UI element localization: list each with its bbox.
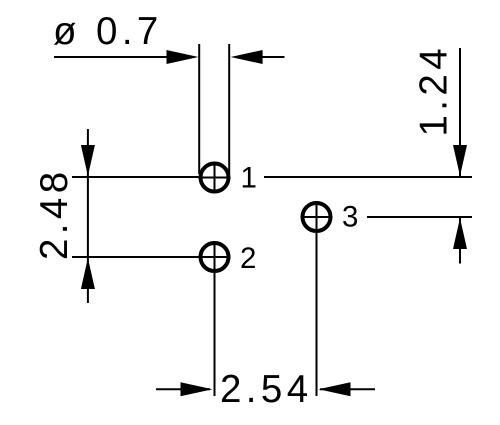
- wire: row2 extension line left (from 2.48 dim to pad 2): [72, 256, 199, 258]
- dimension line 0.7 left segment: [54, 56, 170, 58]
- dimension line 2.54 left tail: [156, 388, 210, 390]
- wire: pad3 extension line down to 2.54 dim: [316, 233, 318, 396]
- svg-text:ø 0.7: ø 0.7: [53, 10, 163, 53]
- wire: row1 extension line left (from 2.48 dim to pad 1): [72, 176, 199, 178]
- arrowhead 0.7 pointing left: [231, 50, 263, 64]
- wire: pad2 extension line down to 2.54 dim: [214, 273, 216, 396]
- wire: pad1 diameter extension line left: [198, 44, 200, 174]
- arrowhead 1.24 pointing up: [453, 218, 467, 249]
- svg-text:2.48: 2.48: [33, 167, 76, 260]
- dimension line 1.24 lower vertical tail: [459, 218, 461, 264]
- svg-text:2.54: 2.54: [220, 368, 313, 411]
- arrowhead 2.54 pointing right: [181, 382, 213, 396]
- wire: row3 extension line right (pad 3 to 1.24 dim): [367, 216, 472, 218]
- pad 3: [301, 201, 333, 233]
- wire: pad1 diameter extension line right: [228, 44, 230, 174]
- pad 1: [199, 162, 231, 194]
- wire: row1 extension line right (pad 1 to 1.24 dim): [264, 176, 472, 178]
- arrowhead 1.24 pointing down: [453, 145, 467, 176]
- svg-text:1.24: 1.24: [413, 44, 456, 137]
- svg-text:2: 2: [240, 242, 256, 275]
- svg-text:3: 3: [342, 201, 358, 234]
- dimension line 0.7 right tail: [260, 56, 285, 58]
- svg-text:1: 1: [241, 162, 257, 195]
- dimension line 1.24 upper vertical: [459, 48, 461, 176]
- arrowhead 2.54 pointing left: [319, 382, 351, 396]
- dimension line 2.54 right tail: [320, 388, 375, 390]
- arrowhead 2.48 pointing up: [81, 258, 95, 289]
- dimension line 2.48 vertical: [87, 129, 89, 303]
- pad 2: [199, 241, 231, 273]
- arrowhead 0.7 pointing right: [167, 50, 199, 64]
- arrowhead 2.48 pointing down: [81, 145, 95, 176]
